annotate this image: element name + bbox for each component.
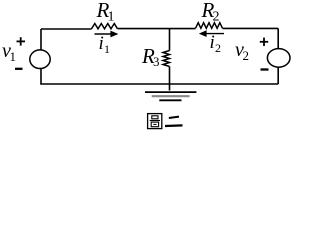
svg-text:2: 2 (243, 48, 250, 63)
label R3 (141, 44, 160, 69)
wire left branch (40, 29, 42, 84)
current arrow i2 (199, 30, 224, 37)
resistor R2 (196, 23, 223, 29)
label R1 (96, 0, 115, 24)
svg-text:1: 1 (10, 49, 17, 64)
label i1 (99, 33, 111, 56)
ground (145, 92, 196, 100)
voltage source v1 (30, 50, 50, 69)
plus sign of v1 (17, 37, 26, 45)
svg-text:2: 2 (213, 9, 220, 24)
svg-text:3: 3 (153, 54, 160, 69)
svg-text:1: 1 (108, 9, 115, 24)
label i2 (210, 32, 222, 55)
resistor R1 (92, 24, 118, 29)
svg-text:i: i (99, 33, 104, 54)
current arrow i1 (95, 31, 119, 38)
minus sign of v2 (261, 68, 269, 70)
wire bottom rail (40, 83, 278, 85)
caption figure 2 (圖二) (148, 114, 183, 129)
label v1 (2, 40, 16, 64)
label v2 (235, 39, 249, 63)
plus sign of v2 (260, 38, 268, 46)
svg-text:2: 2 (215, 41, 221, 55)
wire middle branch (node to R3 and ground) (169, 29, 171, 91)
wire top rail (41, 27, 278, 30)
svg-text:1: 1 (104, 42, 110, 56)
minus sign of v1 (15, 68, 23, 70)
wire right branch (277, 28, 279, 84)
svg-text:i: i (210, 32, 215, 53)
voltage source v2 (267, 49, 290, 68)
resistor R3 (163, 51, 170, 67)
label R2 (201, 0, 220, 24)
